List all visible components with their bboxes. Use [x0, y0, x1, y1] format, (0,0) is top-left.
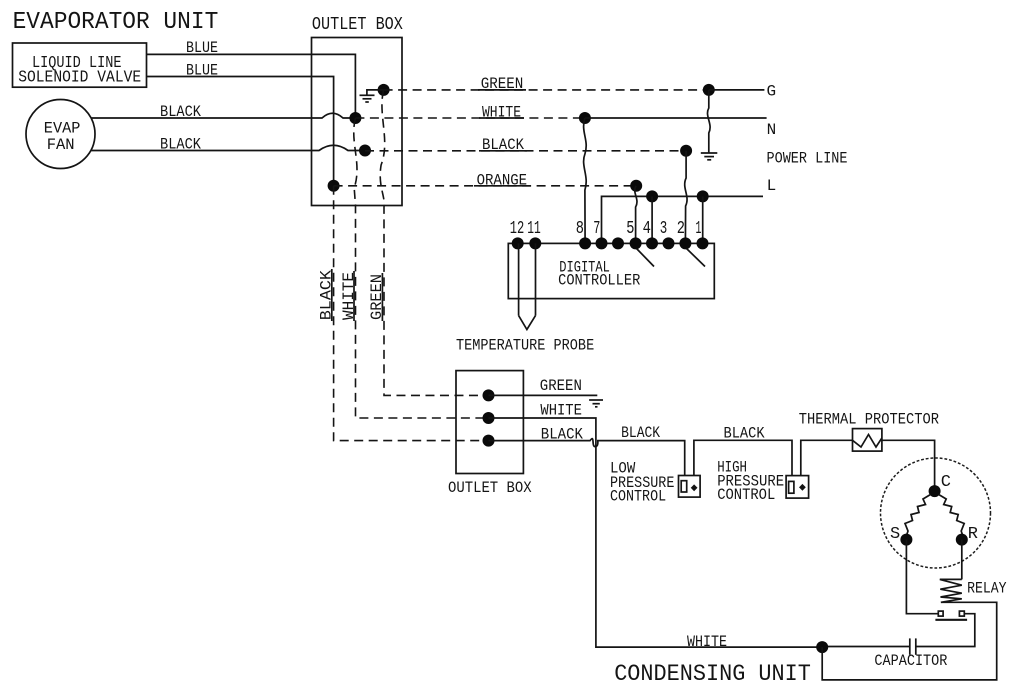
svg-text:WHITE: WHITE	[340, 272, 358, 320]
svg-text:S: S	[890, 525, 900, 544]
wire to G terminal	[709, 89, 765, 91]
node black dot outlet box 2	[483, 435, 495, 447]
high pressure control box	[786, 476, 809, 499]
label BLACK (vertical)	[318, 269, 336, 321]
temperature probe leads	[519, 243, 536, 329]
label WHITE (vertical)	[340, 271, 358, 321]
winding C to S	[905, 495, 931, 536]
wire BLACK to low pressure control (with break symbol)	[489, 439, 685, 476]
pin 8	[579, 237, 591, 249]
wire pin 4 riser	[651, 196, 653, 243]
svg-text:FAN: FAN	[47, 136, 75, 154]
node S terminal	[900, 534, 912, 546]
wire dashed riser BLACK	[334, 186, 489, 441]
wire R to relay coil	[961, 540, 963, 580]
svg-text:2: 2	[677, 219, 685, 239]
wire GREEN to ground	[489, 394, 598, 396]
svg-text:CONTROL: CONTROL	[610, 488, 666, 506]
solenoid valve box	[13, 43, 147, 87]
svg-text:L: L	[767, 177, 777, 195]
node: black dot in outlet box 1	[359, 145, 371, 157]
ground symbol (outlet 2)	[589, 400, 603, 407]
svg-text:G: G	[767, 83, 777, 101]
svg-text:12: 12	[510, 219, 525, 239]
pin 2	[679, 237, 691, 249]
pin 1	[697, 237, 709, 249]
svg-text:BLACK: BLACK	[160, 135, 201, 153]
wire BLACK 1 (fan top, hops over vertical)	[91, 113, 355, 118]
relay switch contacts	[935, 611, 967, 620]
svg-text:THERMAL PROTECTOR: THERMAL PROTECTOR	[799, 411, 940, 429]
node green dot outlet box 2	[483, 389, 495, 401]
pin 5	[630, 237, 642, 249]
svg-text:CONDENSING UNIT: CONDENSING UNIT	[614, 661, 811, 687]
svg-text:SOLENOID VALVE: SOLENOID VALVE	[18, 68, 141, 87]
pin 6	[612, 237, 624, 249]
svg-text:GREEN: GREEN	[368, 274, 386, 320]
thermal protector	[853, 429, 882, 452]
svg-text:7: 7	[593, 219, 600, 239]
svg-text:EVAPORATOR UNIT: EVAPORATOR UNIT	[13, 9, 219, 36]
wire BLACK 2 (fan bottom, hops over verticals)	[91, 145, 365, 150]
ground symbol in outlet box 1	[360, 90, 384, 102]
svg-text:OUTLET BOX: OUTLET BOX	[448, 479, 532, 497]
wire G to earth ground (hops N line)	[708, 90, 711, 153]
wire WHITE solid to N	[585, 117, 767, 119]
wire capacitor to white junction	[822, 646, 910, 648]
node R terminal	[956, 534, 968, 546]
svg-text:11: 11	[527, 219, 541, 239]
svg-text:CAPACITOR: CAPACITOR	[874, 652, 947, 670]
svg-text:OUTLET BOX: OUTLET BOX	[312, 15, 403, 35]
pin 7	[596, 237, 608, 249]
wire orange junction to pin 5 (hops L)	[635, 186, 637, 244]
wire L bus	[602, 196, 764, 243]
node WHITE junction	[579, 112, 591, 124]
wire BLACK dashed	[365, 150, 686, 152]
wire BLUE 1	[147, 54, 356, 118]
wire S to relay switch	[906, 540, 938, 614]
pin 4	[646, 237, 658, 249]
svg-text:CONTROLLER: CONTROLLER	[558, 272, 641, 290]
svg-text:5: 5	[626, 219, 634, 239]
switch contact from pin 5	[637, 249, 655, 267]
node L dot pin1	[697, 190, 709, 202]
node BLACK junction	[680, 145, 692, 157]
switch contact from pin 2	[687, 249, 706, 267]
node: white dot in outlet box 1	[349, 112, 361, 124]
node: orange dot in outlet box 1	[328, 180, 340, 192]
wire dashed riser GREEN (from outlet box 1 down)	[380, 90, 488, 396]
wire dashed riser WHITE	[354, 118, 489, 418]
wire white junction to pin 8 (wavy)	[584, 118, 587, 243]
svg-text:C: C	[941, 473, 951, 492]
label ORANGE underline	[474, 185, 531, 187]
label LOW PRESSURE CONTROL	[610, 459, 674, 505]
svg-text:CONTROL: CONTROL	[717, 486, 775, 504]
wire relay coil loop	[822, 602, 997, 680]
wire switch to capacitor	[916, 614, 975, 647]
svg-text:8: 8	[576, 219, 584, 239]
digital controller box	[508, 243, 714, 298]
svg-text:RELAY: RELAY	[967, 580, 1007, 598]
node G junction	[703, 84, 715, 96]
wire low to high pressure control	[694, 440, 792, 475]
wire pin 1 riser	[702, 196, 704, 243]
svg-text:R: R	[968, 525, 978, 544]
wire ORANGE dashed	[334, 185, 637, 187]
capacitor	[910, 638, 916, 654]
svg-text:BLACK: BLACK	[621, 424, 660, 442]
power line ground symbol	[701, 153, 718, 160]
wire GREEN dashed (to power line)	[384, 89, 709, 91]
svg-text:BLACK: BLACK	[318, 270, 336, 321]
node white junction (bottom)	[816, 641, 828, 653]
evap fan motor	[26, 100, 95, 169]
svg-text:BLUE: BLUE	[186, 62, 218, 80]
node: green/ground dot in outlet box 1	[378, 84, 390, 96]
pin 12	[512, 237, 524, 249]
wire BLUE 2	[147, 77, 334, 186]
svg-text:WHITE: WHITE	[482, 103, 521, 121]
compressor shell	[881, 458, 991, 568]
label GREEN underline	[478, 89, 526, 91]
wire thermal protector to compressor C	[882, 440, 935, 491]
outlet box 1	[312, 38, 403, 206]
svg-text:BLACK: BLACK	[541, 426, 584, 444]
node white dot outlet box 2	[483, 412, 495, 424]
label BLACK underline	[479, 150, 527, 152]
svg-text:GREEN: GREEN	[540, 377, 582, 395]
pin 3	[663, 237, 675, 249]
label GREEN (vertical)	[368, 273, 386, 321]
node C terminal	[929, 485, 941, 497]
svg-text:POWER LINE: POWER LINE	[767, 150, 848, 168]
svg-text:4: 4	[643, 219, 651, 239]
svg-text:WHITE: WHITE	[540, 402, 582, 420]
svg-text:BLACK: BLACK	[482, 136, 524, 154]
node L dot pin4	[646, 190, 658, 202]
label WHITE underline	[479, 117, 524, 119]
winding C to R	[939, 495, 965, 536]
outlet box 2	[456, 371, 523, 474]
svg-text:ORANGE: ORANGE	[477, 171, 527, 189]
low pressure control box	[679, 476, 701, 498]
svg-text:3: 3	[660, 219, 668, 239]
pin 11	[529, 237, 541, 249]
node ORANGE junction	[630, 180, 642, 192]
svg-text:WHITE: WHITE	[687, 633, 727, 651]
relay coil	[940, 579, 962, 602]
svg-text:N: N	[767, 121, 777, 139]
svg-text:BLUE: BLUE	[186, 39, 218, 57]
wire high pressure to thermal protector	[801, 440, 853, 475]
svg-text:GREEN: GREEN	[481, 75, 524, 93]
label HIGH PRESSURE CONTROL	[717, 459, 784, 504]
wire black junction to pin 2 (hops L)	[685, 151, 687, 244]
wire WHITE run to bottom	[489, 418, 823, 647]
svg-text:TEMPERATURE PROBE: TEMPERATURE PROBE	[456, 336, 594, 354]
svg-text:BLACK: BLACK	[160, 103, 201, 121]
svg-text:1: 1	[696, 219, 702, 239]
wire WHITE dashed	[355, 117, 585, 119]
